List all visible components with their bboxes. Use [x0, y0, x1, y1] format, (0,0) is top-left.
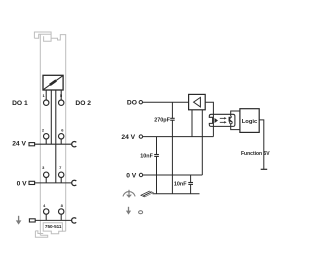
svg-text:0 V: 0 V	[17, 180, 28, 187]
svg-text:0 V: 0 V	[126, 172, 137, 179]
svg-text:DO 2: DO 2	[75, 100, 91, 107]
svg-text:270pF: 270pF	[154, 117, 170, 123]
svg-text:750-511: 750-511	[45, 224, 62, 229]
svg-text:24 V: 24 V	[121, 134, 135, 141]
svg-text:10nF: 10nF	[140, 153, 153, 159]
svg-text:24 V: 24 V	[12, 141, 26, 148]
svg-text:10nF: 10nF	[174, 181, 187, 187]
svg-text:DO: DO	[127, 100, 137, 107]
svg-text:Logic: Logic	[242, 119, 258, 125]
svg-text:Function 5V: Function 5V	[241, 151, 270, 157]
svg-text:DO 1: DO 1	[12, 100, 28, 107]
